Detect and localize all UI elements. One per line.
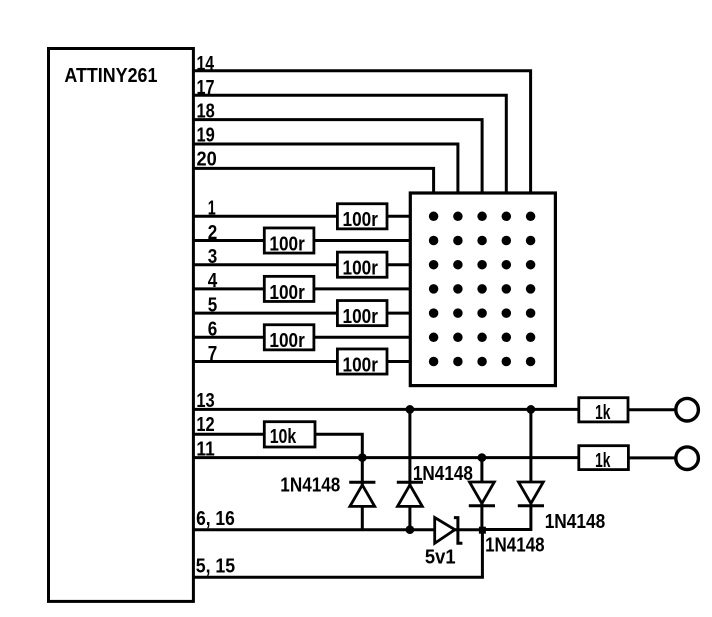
svg-text:11: 11 xyxy=(196,437,214,460)
svg-text:1N4148: 1N4148 xyxy=(413,462,473,485)
resistor R7 100r box xyxy=(337,349,387,374)
svg-text:1: 1 xyxy=(208,197,216,220)
junction 6,16/D3/5,15 (square) xyxy=(479,527,486,534)
resistor R6 100r box xyxy=(264,325,314,350)
resistor R1 100r box xyxy=(337,204,387,229)
resistor R4 100r box xyxy=(264,276,314,301)
wire pin 5,15 net xyxy=(193,576,484,579)
diode D2 anode/cathode vertical wires xyxy=(408,409,411,529)
diode D2 1N4148 (anode up symbol) xyxy=(397,481,423,484)
wire pin 7 to resistor xyxy=(193,360,337,363)
diode D3 vertical wires xyxy=(480,458,483,530)
wire resistor R5 to matrix xyxy=(387,312,410,315)
connector pad P1 xyxy=(676,398,699,421)
junction pin13/D4 xyxy=(527,405,536,414)
svg-text:100r: 100r xyxy=(343,305,378,328)
diode D1 anode/cathode vertical wires xyxy=(361,458,364,530)
svg-text:19: 19 xyxy=(197,124,215,147)
svg-text:100r: 100r xyxy=(343,353,378,376)
wire pin 14 to matrix column xyxy=(193,71,530,193)
wire R10 1k to pad P2 xyxy=(628,456,675,459)
wire pin 2 to resistor xyxy=(193,239,264,242)
resistor R10 1k box xyxy=(579,446,629,470)
svg-text:1N4148: 1N4148 xyxy=(280,474,340,497)
svg-text:5: 5 xyxy=(208,293,218,316)
diode D4 1N4148 (cathode down symbol) xyxy=(519,482,544,503)
wire resistor R4 to matrix xyxy=(315,287,410,290)
svg-text:100r: 100r xyxy=(269,281,304,304)
svg-text:1k: 1k xyxy=(595,449,611,472)
wire pin 5 to resistor xyxy=(193,312,337,315)
svg-text:12: 12 xyxy=(196,413,214,436)
junction pin11/D3 xyxy=(478,453,487,462)
svg-text:5, 15: 5, 15 xyxy=(196,555,236,578)
svg-text:4: 4 xyxy=(208,269,218,292)
wire pin 11 net xyxy=(193,456,578,459)
resistor R8 10k box xyxy=(264,422,315,447)
wire pin 12 to R8 xyxy=(193,433,264,436)
LED matrix dots 5x7 xyxy=(429,212,535,367)
svg-text:100r: 100r xyxy=(343,257,378,280)
svg-text:5v1: 5v1 xyxy=(425,546,456,569)
wire R8 10k output to pin 11 net xyxy=(315,434,362,457)
wire pin 20 to matrix column xyxy=(193,168,433,193)
resistor R3 100r box xyxy=(337,252,387,277)
svg-text:17: 17 xyxy=(197,76,215,99)
wire pin 6 to resistor xyxy=(193,336,264,339)
svg-text:6, 16: 6, 16 xyxy=(196,507,235,530)
svg-text:3: 3 xyxy=(208,245,218,268)
svg-text:1k: 1k xyxy=(595,401,611,424)
wire junction down to pin 5,15 net xyxy=(481,530,484,577)
svg-text:7: 7 xyxy=(208,342,218,365)
svg-text:13: 13 xyxy=(196,389,214,412)
svg-text:1N4148: 1N4148 xyxy=(485,534,544,557)
resistor R5 100r box xyxy=(337,301,387,326)
svg-text:18: 18 xyxy=(197,100,215,123)
svg-text:6: 6 xyxy=(208,318,218,341)
wire pin 17 to matrix column xyxy=(193,95,506,193)
diode D1 1N4148 (anode up symbol) xyxy=(349,481,375,484)
diode D3 1N4148 (cathode down symbol) xyxy=(470,482,495,503)
wire pin 18 to matrix column xyxy=(193,120,482,193)
wire resistor R3 to matrix xyxy=(387,263,410,266)
zener diode D5 5v1 xyxy=(435,518,463,544)
svg-text:100r: 100r xyxy=(269,232,304,255)
svg-text:14: 14 xyxy=(197,52,215,75)
wire pin 19 to matrix column xyxy=(193,144,458,193)
resistor R2 100r box xyxy=(264,228,314,253)
svg-text:ATTINY261: ATTINY261 xyxy=(64,64,157,87)
wire pin 4 to resistor xyxy=(193,287,264,290)
wire resistor R7 to matrix xyxy=(387,360,410,363)
LED matrix display U2 body xyxy=(410,193,555,386)
wire zener D5 cathode to junction xyxy=(454,528,482,531)
wire pin 3 to resistor xyxy=(193,263,337,266)
wire pin 1 to resistor xyxy=(193,215,337,218)
junction 6,16/D2 xyxy=(406,525,415,534)
svg-text:10k: 10k xyxy=(270,425,297,448)
svg-text:1N4148: 1N4148 xyxy=(545,510,606,533)
junction pin11/D1 xyxy=(358,453,367,462)
connector pad P2 xyxy=(676,447,699,470)
svg-text:20: 20 xyxy=(197,148,217,171)
svg-text:100r: 100r xyxy=(269,329,304,352)
IC U1 ATTINY261 body xyxy=(49,49,194,602)
resistor R9 1k box xyxy=(579,398,628,422)
wire resistor R1 to matrix xyxy=(387,215,410,218)
wire pin 6,16 net xyxy=(193,528,434,531)
svg-text:2: 2 xyxy=(208,221,218,244)
wire resistor R6 to matrix xyxy=(315,336,410,339)
wire resistor R2 to matrix xyxy=(315,239,410,242)
wire junction to diode D4 bottom xyxy=(482,506,531,530)
svg-text:100r: 100r xyxy=(343,208,378,231)
junction pin13/D2 xyxy=(406,405,415,414)
diode D4 top vertical wire xyxy=(529,409,532,482)
wire R9 1k to pad P1 xyxy=(628,408,675,411)
wire pin 13 net xyxy=(193,408,578,411)
